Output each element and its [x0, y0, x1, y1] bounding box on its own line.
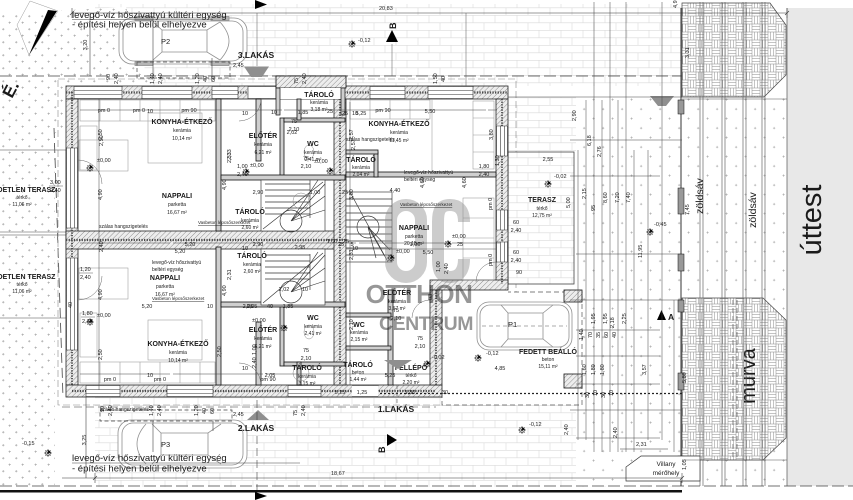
svg-text:±0,00: ±0,00 [252, 318, 266, 324]
fence lines across zoldsav [682, 98, 787, 100]
svg-text:4,40: 4,40 [390, 188, 401, 194]
svg-text:75: 75 [291, 119, 297, 125]
svg-text:kerámia: kerámia [254, 336, 272, 342]
svg-text:±0,00: ±0,00 [396, 249, 410, 255]
svg-text:2,31: 2,31 [636, 442, 647, 448]
svg-text:20,83: 20,83 [379, 6, 393, 12]
svg-text:TERASZ: TERASZ [528, 197, 557, 204]
door arcs [78, 99, 496, 385]
svg-text:P3: P3 [161, 440, 170, 449]
svg-text:Villany: Villany [656, 461, 676, 468]
svg-text:FEDETLEN TERASZ: FEDETLEN TERASZ [0, 274, 56, 281]
heat pump outdoor unit box bottom [100, 410, 232, 421]
svg-text:2,90: 2,90 [253, 190, 264, 196]
furniture nappali flat2 [79, 268, 128, 299]
svg-text:7,45: 7,45 [685, 204, 691, 215]
svg-text:2,40: 2,40 [301, 405, 307, 416]
svg-text:2,60 m²: 2,60 m² [244, 269, 261, 275]
marker B top [386, 30, 398, 42]
svg-text:18,67: 18,67 [331, 471, 345, 477]
svg-text:10,14 m²: 10,14 m² [168, 358, 188, 364]
svg-text:30: 30 [601, 392, 607, 398]
svg-text:70: 70 [588, 332, 594, 338]
furniture nappali flat1 wardrobe [463, 198, 494, 280]
svg-text:25: 25 [457, 242, 463, 248]
svg-text:2,05: 2,05 [265, 373, 276, 379]
wall: left exterior [66, 99, 78, 385]
svg-text:1,60: 1,60 [582, 364, 588, 375]
svg-text:1,80: 1,80 [600, 364, 606, 375]
svg-text:2,10: 2,10 [415, 344, 426, 350]
svg-text:parketta: parketta [405, 234, 423, 240]
svg-text:pm 0: pm 0 [488, 254, 494, 266]
terrace TERASZ slab [508, 152, 574, 284]
svg-text:10: 10 [207, 304, 213, 310]
svg-text:P2: P2 [161, 37, 170, 46]
car P3 [118, 420, 247, 468]
svg-text:2,40: 2,40 [252, 357, 258, 368]
svg-text:60: 60 [604, 332, 610, 338]
svg-text:1,00: 1,00 [327, 239, 338, 245]
svg-text:parketta: parketta [168, 202, 186, 208]
svg-text:83: 83 [428, 294, 434, 300]
svg-text:90: 90 [100, 406, 106, 412]
svg-text:60: 60 [211, 76, 217, 82]
windows flat1 east wall [497, 126, 508, 262]
svg-text:10: 10 [271, 110, 277, 116]
base thick line bottom [0, 490, 682, 493]
svg-text:1,00: 1,00 [436, 261, 442, 272]
svg-text:1,30: 1,30 [495, 155, 501, 166]
svg-text:térkő: térkő [536, 206, 547, 212]
furniture kitchen flat1 [350, 99, 494, 170]
svg-text:75: 75 [294, 78, 300, 84]
svg-text:2,60 m²: 2,60 m² [242, 225, 259, 231]
top edge arrow [255, 0, 267, 9]
svg-text:1,05: 1,05 [682, 459, 688, 470]
car P1 [477, 302, 572, 350]
yard paving bottom strip [95, 397, 682, 487]
svg-text:40: 40 [68, 302, 74, 308]
svg-text:WC: WC [307, 141, 319, 148]
svg-text:2,02: 2,02 [287, 130, 298, 136]
furniture kitchen flat2 [80, 313, 215, 383]
svg-text:1,85: 1,85 [283, 304, 294, 310]
svg-text:5,80: 5,80 [682, 372, 688, 383]
svg-text:1,20: 1,20 [195, 73, 201, 84]
svg-text:2,95: 2,95 [295, 245, 306, 251]
svg-text:2,90: 2,90 [253, 242, 264, 248]
room labels flat3 [151, 90, 334, 231]
svg-text:4,90: 4,90 [98, 189, 104, 200]
svg-text:térkő: térkő [16, 282, 27, 288]
svg-text:2,31: 2,31 [227, 269, 233, 280]
dimension chain bottom [62, 449, 684, 483]
svg-text:NAPPALI: NAPPALI [150, 275, 180, 282]
zoldsav strip [682, 8, 787, 486]
svg-text:-0,12: -0,12 [486, 351, 499, 357]
svg-text:2,40: 2,40 [99, 241, 105, 252]
svg-text:-0,15: -0,15 [22, 441, 35, 447]
svg-text:1,20: 1,20 [194, 405, 200, 416]
svg-text:FEDETLEN TERASZ: FEDETLEN TERASZ [0, 187, 56, 194]
bottom edge arrow [255, 492, 267, 500]
site boundary dashed top [0, 75, 682, 77]
svg-text:2,40: 2,40 [80, 275, 91, 281]
svg-text:±0,00: ±0,00 [250, 163, 264, 169]
svg-text:kerámia: kerámia [243, 262, 261, 268]
svg-text:2,55: 2,55 [543, 157, 554, 163]
svg-text:10: 10 [302, 287, 308, 293]
svg-text:2,76: 2,76 [597, 146, 603, 157]
terrain dots top-left [0, 7, 161, 487]
marker B bottom [387, 434, 397, 446]
wall: bottom exterior [66, 385, 442, 397]
svg-text:75: 75 [293, 410, 299, 416]
dimension chain top [70, 8, 789, 18]
svg-text:2,40: 2,40 [82, 319, 93, 325]
svg-text:ELŐTÉR: ELŐTÉR [249, 325, 277, 334]
svg-text:Vasbeton lépcsőszerkezet: Vasbeton lépcsőszerkezet [198, 220, 251, 225]
svg-text:pm 90: pm 90 [375, 108, 390, 114]
svg-text:60: 60 [513, 220, 519, 226]
svg-text:2,40: 2,40 [50, 188, 61, 194]
svg-text:2,40: 2,40 [444, 263, 450, 274]
elevation markers [22, 38, 667, 457]
wall: flat1 south of nappali [430, 280, 508, 290]
dims under building bottom row [100, 405, 307, 416]
svg-text:2,40: 2,40 [158, 73, 164, 84]
svg-text:2,90: 2,90 [572, 110, 578, 121]
svg-text:ELŐTÉR: ELŐTÉR [249, 131, 277, 140]
svg-text:±0,00: ±0,00 [314, 159, 328, 165]
svg-text:KONYHA-ÉTKEZŐ: KONYHA-ÉTKEZŐ [147, 339, 209, 348]
svg-text:1,85: 1,85 [298, 110, 309, 116]
svg-text:75: 75 [393, 308, 399, 314]
svg-text:7,40: 7,40 [626, 192, 632, 203]
svg-text:TÁROLÓ: TÁROLÓ [292, 363, 322, 372]
svg-text:NAPPALI: NAPPALI [162, 193, 192, 200]
svg-text:2,40: 2,40 [511, 258, 522, 264]
windows left wall [67, 148, 78, 350]
svg-text:75: 75 [303, 348, 309, 354]
svg-text:11,06 m²: 11,06 m² [12, 202, 32, 208]
wall: party horizontal [66, 231, 345, 249]
svg-text:pm 0: pm 0 [98, 108, 110, 114]
svg-text:beton: beton [352, 370, 365, 376]
svg-text:pm 0: pm 0 [104, 377, 116, 383]
wc fixtures [304, 145, 314, 159]
svg-text:10: 10 [242, 246, 248, 252]
svg-text:5: 5 [350, 242, 353, 248]
svg-text:WC: WC [307, 315, 319, 322]
taroló niche protruding north [276, 76, 346, 115]
partitions flat1 [346, 150, 496, 385]
svg-text:6,18: 6,18 [587, 135, 593, 146]
svg-text:2,40: 2,40 [108, 405, 114, 416]
svg-text:-0,02: -0,02 [554, 174, 567, 180]
svg-text:-0,12: -0,12 [358, 38, 371, 44]
svg-text:FEDETT BEÁLLÓ: FEDETT BEÁLLÓ [519, 347, 577, 356]
svg-text:2,40: 2,40 [613, 427, 619, 438]
svg-text:B: B [388, 22, 398, 29]
svg-text:1,00: 1,00 [310, 190, 321, 196]
east boundary fence [678, 8, 684, 486]
svg-text:40: 40 [441, 76, 447, 82]
svg-text:25: 25 [327, 109, 333, 115]
svg-text:8,60: 8,60 [603, 192, 609, 203]
stair flat3 [261, 180, 325, 232]
svg-text:2,15: 2,15 [582, 188, 588, 199]
svg-text:- építési helyen belül elhelye: - építési helyen belül elhelyezve [72, 20, 207, 31]
svg-text:1,80: 1,80 [591, 364, 597, 375]
windows top wall [74, 87, 473, 99]
svg-text:10: 10 [242, 366, 248, 372]
svg-text:zöldsáv: zöldsáv [747, 191, 759, 227]
svg-text:kerámia: kerámia [169, 350, 187, 356]
svg-text:95: 95 [591, 205, 597, 211]
svg-text:kerámia: kerámia [310, 100, 328, 106]
svg-text:25: 25 [342, 190, 348, 196]
svg-text:B: B [377, 446, 387, 453]
svg-text:murva: murva [738, 347, 760, 403]
svg-text:40: 40 [203, 76, 209, 82]
wall: top exterior [66, 86, 508, 99]
svg-text:3,80: 3,80 [349, 189, 355, 200]
svg-text:1,44 m²: 1,44 m² [350, 377, 367, 383]
svg-text:2,40: 2,40 [564, 424, 570, 435]
svg-text:3,57: 3,57 [642, 364, 648, 375]
furniture nappali flat3 [79, 140, 128, 171]
svg-text:P1: P1 [508, 320, 517, 329]
svg-text:1,20: 1,20 [80, 267, 91, 273]
svg-text:2,40: 2,40 [511, 228, 522, 234]
entrance trapezoid gate [650, 96, 674, 106]
svg-text:2,31: 2,31 [349, 249, 355, 260]
svg-text:5,20: 5,20 [142, 304, 153, 310]
fedetlen terasz outlines [0, 150, 66, 232]
terrace labels left [0, 187, 56, 295]
svg-text:5,50: 5,50 [423, 250, 434, 256]
svg-text:TÁROLÓ: TÁROLÓ [235, 207, 265, 216]
svg-text:10,14 m²: 10,14 m² [172, 136, 192, 142]
svg-text:2,57: 2,57 [351, 139, 357, 150]
svg-text:2,10: 2,10 [391, 316, 402, 322]
svg-text:-0,45: -0,45 [654, 222, 667, 228]
svg-text:zöldsáv: zöldsáv [694, 177, 706, 213]
svg-text:1,25: 1,25 [357, 390, 368, 396]
svg-text:2,50: 2,50 [98, 349, 104, 360]
north arrow [0, 1, 58, 101]
svg-text:90: 90 [106, 74, 112, 80]
svg-text:Vasbeton lépcsőszerkezet: Vasbeton lépcsőszerkezet [400, 202, 453, 207]
svg-text:±0,00: ±0,00 [452, 234, 466, 240]
svg-text:2,50: 2,50 [99, 135, 105, 146]
site boundary left dashed vertical [96, 128, 98, 212]
svg-text:szálas hangszigetelés: szálas hangszigetelés [99, 224, 148, 230]
svg-text:kerámia: kerámia [388, 299, 406, 305]
fedett beallo slab dashed [442, 292, 582, 405]
svg-text:3,15 m²: 3,15 m² [299, 381, 316, 387]
interior small dims [98, 108, 553, 396]
svg-text:OTTHON: OTTHON [366, 279, 473, 309]
svg-text:NAPPALI: NAPPALI [399, 225, 429, 232]
svg-text:levegő-víz hőszivattyú: levegő-víz hőszivattyú [152, 260, 201, 266]
roof overhang dashed outline [58, 79, 516, 405]
svg-text:1,95: 1,95 [591, 313, 597, 324]
svg-text:3.LAKÁS: 3.LAKÁS [238, 50, 275, 60]
svg-text:2,10: 2,10 [301, 164, 312, 170]
site boundary dashed bottom [0, 485, 853, 487]
building interior white [66, 86, 508, 397]
svg-text:4,90: 4,90 [222, 285, 228, 296]
svg-text:2,10: 2,10 [301, 356, 312, 362]
svg-text:1,40: 1,40 [579, 329, 585, 340]
svg-text:TÁROLÓ: TÁROLÓ [237, 251, 267, 260]
svg-text:2,45: 2,45 [233, 63, 244, 69]
svg-text:kerámia: kerámia [298, 374, 316, 380]
svg-text:-0,12: -0,12 [529, 422, 542, 428]
svg-text:2,40: 2,40 [302, 73, 308, 84]
svg-text:2,57: 2,57 [349, 129, 355, 140]
svg-text:2,40: 2,40 [237, 172, 248, 178]
svg-text:25: 25 [342, 111, 348, 117]
svg-text:1,80: 1,80 [479, 164, 490, 170]
svg-text:10: 10 [147, 109, 153, 115]
svg-text:2,15 m²: 2,15 m² [351, 337, 368, 343]
svg-text:4,60: 4,60 [420, 177, 426, 188]
svg-text:11,95: 11,95 [638, 245, 644, 258]
svg-text:11,06 m²: 11,06 m² [12, 289, 32, 295]
svg-text:TÁROLÓ: TÁROLÓ [304, 90, 334, 99]
svg-text:2,45: 2,45 [233, 412, 244, 418]
svg-text:5,25: 5,25 [335, 390, 346, 396]
svg-text:1,95: 1,95 [603, 313, 609, 324]
svg-text:beltéri egység: beltéri egység [152, 267, 183, 273]
svg-text:2.LAKÁS: 2.LAKÁS [238, 423, 275, 433]
svg-text:5,20: 5,20 [185, 242, 196, 248]
furniture kitchen flat3 [80, 100, 215, 170]
svg-text:30: 30 [585, 392, 591, 398]
svg-text:2,40: 2,40 [114, 73, 120, 84]
svg-text:2,10: 2,10 [349, 319, 355, 330]
svg-text:90: 90 [516, 270, 522, 276]
partitions flat2 [216, 247, 345, 385]
svg-text:5,25: 5,25 [385, 373, 396, 379]
svg-text:1,40: 1,40 [149, 405, 155, 416]
stair flat1 [346, 192, 392, 262]
svg-text:75: 75 [303, 156, 309, 162]
room labels flat2 [147, 251, 322, 387]
svg-text:3,25: 3,25 [82, 435, 88, 446]
svg-text:- építési helyen belül elhelye: - építési helyen belül elhelyezve [72, 464, 207, 475]
svg-text:6,21 m²: 6,21 m² [255, 150, 272, 156]
svg-text:1.LAKÁS: 1.LAKÁS [378, 404, 415, 414]
svg-text:2,04 m²: 2,04 m² [353, 172, 370, 178]
svg-text:pm 0: pm 0 [133, 108, 145, 114]
svg-text:4,60: 4,60 [462, 177, 468, 188]
svg-text:2,02: 2,02 [279, 287, 290, 293]
svg-text:5,20: 5,20 [175, 249, 186, 255]
svg-text:1,50: 1,50 [433, 73, 439, 84]
svg-text:beton: beton [542, 357, 555, 363]
svg-text:2,50: 2,50 [217, 346, 223, 357]
murva block top [682, 3, 786, 97]
svg-text:térkő: térkő [16, 195, 27, 201]
svg-text:mérőhely: mérőhely [653, 470, 680, 477]
wall: flat1 east [496, 99, 508, 284]
svg-text:1,40: 1,40 [150, 73, 156, 84]
svg-text:1,00: 1,00 [410, 242, 421, 248]
svg-text:1,00: 1,00 [237, 164, 248, 170]
svg-text:3,00: 3,00 [50, 180, 61, 186]
stair flat2 [261, 249, 325, 305]
dims around building top row [106, 73, 447, 84]
svg-text:-0,02: -0,02 [432, 355, 445, 361]
yard paving NE corner [508, 97, 576, 152]
svg-text:40: 40 [612, 332, 618, 338]
heat pump outdoor unit box top [137, 62, 230, 78]
svg-text:60: 60 [513, 250, 519, 256]
dimension left chain [62, 14, 436, 490]
svg-text:2,25: 2,25 [622, 313, 628, 324]
uttest road [787, 8, 853, 486]
svg-text:2,05: 2,05 [247, 304, 258, 310]
room labels flat1 [343, 119, 577, 386]
dim chain west of building [80, 99, 500, 390]
svg-text:ELŐTÉR: ELŐTÉR [383, 288, 411, 297]
svg-text:kerámia: kerámia [352, 165, 370, 171]
yard paving top strip [95, 4, 682, 86]
svg-text:TÁROLÓ: TÁROLÓ [346, 155, 376, 164]
beallo posts [564, 290, 582, 302]
entrance trapezoid flat3 [244, 67, 269, 78]
svg-text:1,80: 1,80 [82, 311, 93, 317]
svg-text:kerámia: kerámia [390, 130, 408, 136]
svg-text:12,75 m²: 12,75 m² [532, 213, 552, 219]
svg-text:40: 40 [202, 408, 208, 414]
wall: flat1 lower east [430, 290, 442, 385]
wall insulation core lines [66, 93, 508, 392]
svg-text:4,9: 4,9 [673, 0, 679, 8]
wall: party vertical [334, 99, 346, 385]
svg-text:pm 0: pm 0 [154, 377, 166, 383]
svg-text:kerámia: kerámia [254, 142, 272, 148]
svg-text:úttest: úttest [796, 185, 828, 256]
svg-text:levegő-víz hőszivattyú: levegő-víz hőszivattyú [404, 170, 453, 176]
svg-text:3,80: 3,80 [489, 129, 495, 140]
svg-text:15,11 m²: 15,11 m² [538, 364, 558, 370]
svg-text:1,00: 1,00 [252, 344, 258, 355]
svg-text:16,67 m²: 16,67 m² [167, 210, 187, 216]
svg-text:2,40: 2,40 [479, 172, 490, 178]
driveway dashed centerlines [733, 300, 737, 460]
dots yard right of building [576, 97, 682, 486]
svg-text:kerámia: kerámia [173, 128, 191, 134]
svg-text:TÁROLÓ: TÁROLÓ [343, 360, 373, 369]
marker A right [657, 310, 666, 320]
svg-text:5,00: 5,00 [566, 197, 572, 208]
svg-text:5,25: 5,25 [356, 111, 367, 117]
svg-text:7,20: 7,20 [615, 192, 621, 203]
svg-text:levegő-víz hőszivattyú kültéri: levegő-víz hőszivattyú kültéri egység [72, 453, 227, 464]
svg-text:4,90: 4,90 [222, 179, 228, 190]
svg-text:A: A [668, 312, 674, 322]
windows bottom wall [86, 386, 378, 397]
svg-text:4,90: 4,90 [98, 289, 104, 300]
yard guide lines top [257, 13, 466, 86]
svg-text:2,41 m²: 2,41 m² [305, 331, 322, 337]
